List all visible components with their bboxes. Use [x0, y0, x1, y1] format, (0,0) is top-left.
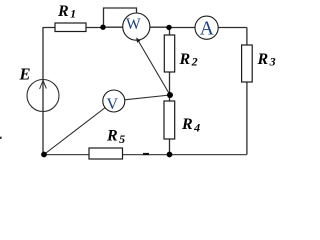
- resistor R2: [164, 35, 174, 72]
- resistor R3: [242, 45, 253, 82]
- ammeter A: [195, 16, 218, 39]
- source E: [27, 80, 59, 112]
- wire bottom horizontal (R5 run): [44, 154, 247, 156]
- resistor R5: [89, 148, 123, 159]
- stray mark left edge: [0, 137, 2, 139]
- node junction W-R2: [166, 25, 171, 30]
- wire diagonal node to V: [44, 101, 114, 155]
- resistor R1: [55, 23, 86, 32]
- voltmeter V: [103, 90, 125, 112]
- wire top-left horizontal (E to R1): [43, 27, 103, 29]
- svg-text:W: W: [126, 16, 141, 33]
- svg-text:R1: R1: [57, 3, 76, 21]
- wire left vertical (E branch): [42, 27, 44, 155]
- svg-text:E: E: [19, 65, 31, 84]
- node junction R2-R4-V-W: [167, 92, 173, 98]
- wire top middle (node to W to node): [103, 26, 169, 28]
- wire diagonal V to node: [114, 95, 170, 101]
- node junction R1-W: [100, 25, 105, 30]
- wire wattmeter voltage-coil loop: [104, 8, 137, 27]
- resistor R4: [164, 101, 175, 139]
- wattmeter U W: [123, 13, 150, 40]
- wire bold dash on bottom run: [143, 153, 149, 155]
- wire top right (node to A to corner): [169, 27, 247, 29]
- svg-text:A: A: [200, 18, 214, 39]
- wire diagonal W to node: [138, 40, 171, 96]
- svg-text:V: V: [107, 96, 119, 113]
- node junction bottom-left: [41, 152, 47, 158]
- wire middle vertical (R2-R4 branch): [169, 27, 171, 154]
- node junction R4-bottom: [167, 152, 173, 158]
- wire right vertical (R3 branch): [246, 28, 248, 155]
